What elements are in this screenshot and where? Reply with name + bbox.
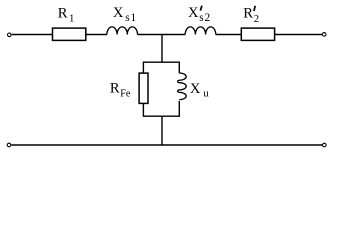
svg-text:Fe: Fe [120, 88, 131, 99]
wire Xs2 to R2 [216, 34, 242, 36]
label R1 [58, 5, 75, 24]
svg-text:u: u [203, 87, 209, 99]
label RFe [110, 81, 131, 100]
wire RFe bottom lead [142, 103, 144, 116]
label Xu [190, 81, 210, 100]
node center tap [161, 35, 163, 63]
svg-text:2: 2 [254, 13, 259, 25]
wire shunt top bar [143, 62, 179, 73]
svg-text:s2: s2 [199, 12, 211, 24]
svg-text:R: R [58, 5, 68, 21]
resistor R2-prime [241, 28, 274, 40]
svg-text:X: X [188, 5, 199, 21]
wire top rail: terminal to R1 [12, 34, 53, 36]
label R2-prime [243, 5, 259, 25]
inductor Xu [178, 73, 187, 100]
wire shunt to bottom rail [161, 116, 163, 145]
label Xs2-prime [188, 5, 211, 24]
terminal top-right [322, 33, 326, 37]
svg-text:X: X [113, 5, 124, 21]
svg-text:R: R [110, 81, 120, 97]
wire R2 to terminal top-right [275, 34, 322, 36]
resistor R1 [53, 28, 86, 40]
terminal bottom-left [7, 143, 11, 147]
resistor RFe [139, 73, 148, 103]
label Xs1 [113, 5, 137, 24]
wire R1 to Xs1 [86, 34, 107, 36]
wire shunt bottom bar [143, 115, 180, 117]
svg-text:R: R [243, 5, 253, 21]
svg-text:1: 1 [69, 13, 74, 25]
terminal top-left [8, 33, 12, 37]
inductor Xs1 [107, 27, 138, 35]
wire Xu bottom lead [178, 101, 180, 116]
wire Xs1 to Xs2 through center tap [138, 34, 186, 36]
svg-text:X: X [190, 81, 201, 97]
wire bottom rail [11, 144, 322, 146]
terminal bottom-right [323, 143, 327, 147]
svg-text:s1: s1 [125, 12, 137, 24]
inductor Xs2 [185, 27, 216, 35]
